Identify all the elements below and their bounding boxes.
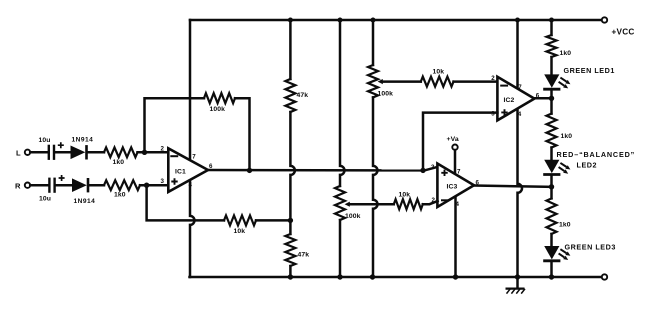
wire diode to R bbox=[88, 151, 104, 154]
svg-text:1k0: 1k0 bbox=[114, 192, 126, 199]
capacitor 10u (right channel) bbox=[48, 178, 50, 193]
potentiometer 100k upper element bbox=[368, 65, 378, 97]
node divider junction bbox=[288, 218, 293, 223]
wire rail to R1 bbox=[550, 20, 553, 35]
wire wiper to 10k bbox=[350, 203, 394, 206]
node rail junction pot2 bottom bbox=[337, 274, 342, 279]
svg-text:LED2: LED2 bbox=[577, 160, 598, 169]
pot2 wiper arrow bbox=[350, 203, 352, 205]
node rail junction LED chain bbox=[549, 18, 554, 23]
svg-text:R: R bbox=[15, 181, 21, 190]
svg-text:10k: 10k bbox=[433, 69, 445, 76]
svg-text:10k: 10k bbox=[234, 228, 246, 235]
wire rail down pot2 (hop over output row) bbox=[340, 20, 345, 186]
wire R to LED3 bbox=[550, 234, 553, 246]
resistor 10k (IC3 input) bbox=[394, 199, 423, 209]
node rail junction LED3 bbox=[549, 274, 554, 279]
node junction pin3/feedback bbox=[144, 183, 149, 188]
wire pot2 to 0V rail bbox=[339, 220, 342, 277]
wire pin2 node up bbox=[145, 98, 205, 152]
wire IC1 output row bbox=[208, 169, 423, 172]
node rail junction 47k bottom bbox=[288, 274, 293, 279]
pin plus IC3 bbox=[441, 170, 447, 176]
svg-text:IC1: IC1 bbox=[175, 168, 186, 175]
svg-text:+Va: +Va bbox=[447, 136, 459, 143]
wire cap to diode bbox=[56, 184, 72, 187]
svg-text:7: 7 bbox=[518, 84, 522, 91]
svg-text:100k: 100k bbox=[345, 213, 361, 220]
resistor 100k feedback bbox=[204, 93, 235, 103]
wire IC2 output bbox=[534, 97, 551, 100]
wire 10k to IC2 pin2 bbox=[454, 80, 498, 83]
wire wiper to 10k bbox=[384, 80, 421, 83]
svg-text:1k0: 1k0 bbox=[113, 159, 125, 166]
node rail junction ground/IC2 pin4 bbox=[515, 274, 520, 279]
resistor 47k upper bbox=[285, 79, 295, 112]
svg-text:2: 2 bbox=[491, 75, 495, 82]
wire rail to pot1 bbox=[372, 20, 375, 65]
LED2 red bbox=[544, 160, 559, 173]
pin plus IC1 bbox=[171, 178, 177, 184]
wire L input bbox=[30, 151, 48, 154]
diode D1 1N914 bbox=[71, 146, 86, 160]
wire cap to diode bbox=[56, 151, 71, 154]
svg-text:IC3: IC3 bbox=[447, 184, 458, 191]
node rail junction pot2 bbox=[338, 18, 343, 23]
wire link to IC3 pin3 bbox=[423, 167, 438, 171]
wire R to LED1 bbox=[550, 57, 553, 74]
wire 10k to divider node bbox=[256, 219, 290, 222]
wire R input bbox=[30, 184, 48, 187]
wire diode to R bbox=[90, 184, 105, 187]
node output junction bbox=[247, 168, 252, 173]
wire IC2 pin3 row bbox=[423, 113, 497, 171]
capacitor 10u (left channel) bbox=[48, 145, 50, 160]
pin minus IC3 bbox=[442, 199, 448, 201]
node rail junction 47k bbox=[288, 18, 293, 23]
terminal +Va bbox=[452, 145, 457, 150]
node rail junction pot1 bbox=[371, 18, 376, 23]
diode D2 1N914 bbox=[72, 178, 87, 192]
wire LED3 to 0V rail bbox=[550, 262, 553, 277]
wire +Va to IC3 pin7 bbox=[454, 150, 457, 172]
svg-text:100k: 100k bbox=[210, 106, 226, 113]
wire R to LED2 bbox=[550, 148, 553, 160]
LED3 green bbox=[544, 246, 559, 259]
op-amp IC2 bbox=[497, 77, 534, 121]
wire IC1 pin4 to 0V rail (hop over 10k row) bbox=[190, 181, 195, 278]
node LED chain junction IC2 out bbox=[549, 96, 554, 101]
svg-text:1k0: 1k0 bbox=[561, 133, 573, 140]
node LED chain junction IC3 out bbox=[549, 184, 554, 189]
pot1 wiper arrow bbox=[383, 81, 385, 83]
svg-text:IC2: IC2 bbox=[504, 97, 515, 104]
svg-text:10u: 10u bbox=[39, 137, 51, 144]
wire 100k to output node bbox=[235, 98, 250, 170]
terminal +VCC bbox=[602, 17, 607, 22]
svg-text:2: 2 bbox=[161, 145, 165, 152]
svg-text:7: 7 bbox=[457, 169, 461, 176]
op-amp IC1 bbox=[168, 148, 208, 192]
resistor 47k lower bbox=[289, 220, 292, 234]
svg-text:1N914: 1N914 bbox=[74, 198, 96, 205]
wire +VCC top rail bbox=[190, 19, 603, 22]
svg-text:L: L bbox=[16, 148, 21, 157]
resistor 1k0 (left input) bbox=[104, 147, 138, 157]
ground (chassis) bbox=[516, 277, 519, 288]
wire IC1 pin7 to +VCC rail bbox=[189, 20, 192, 160]
svg-text:1N914: 1N914 bbox=[72, 136, 94, 143]
wire 47k to node (hop over output row) bbox=[290, 112, 295, 220]
wire pin3 node down bbox=[147, 185, 224, 220]
wire IC3 pin4 to 0V rail bbox=[454, 197, 457, 277]
svg-text:10k: 10k bbox=[399, 191, 411, 198]
node rail junction IC3 pin4 bbox=[453, 274, 458, 279]
svg-text:3: 3 bbox=[431, 164, 435, 171]
svg-text:+VCC: +VCC bbox=[612, 27, 635, 36]
node IC2pin3/IC1out junction bbox=[420, 168, 425, 173]
terminal bottom right bbox=[602, 274, 607, 279]
wire LED1 to junction bbox=[550, 90, 553, 113]
svg-text:RED–“BALANCED”: RED–“BALANCED” bbox=[557, 150, 636, 159]
pin minus IC2 bbox=[501, 85, 507, 87]
resistor 1k0 (second) bbox=[547, 114, 557, 148]
wire IC2 pin4 to 0V rail (hop over IC3 output) bbox=[518, 110, 523, 278]
svg-text:1k0: 1k0 bbox=[559, 222, 571, 229]
svg-text:1k0: 1k0 bbox=[560, 50, 572, 57]
wire LED2 to junction bbox=[550, 176, 553, 199]
svg-text:GREEN LED3: GREEN LED3 bbox=[565, 242, 616, 251]
wire 0V bottom rail bbox=[190, 276, 604, 279]
wire IC3 output bbox=[474, 186, 552, 187]
node rail junction IC2 pin7 bbox=[515, 18, 520, 23]
node junction pin2/feedback bbox=[142, 150, 147, 155]
svg-text:47k: 47k bbox=[297, 92, 309, 99]
resistor 1k0 (right input) bbox=[104, 180, 140, 190]
wire rail to 47k top bbox=[289, 20, 292, 79]
wire R to IC1 pin2 bbox=[138, 151, 169, 154]
LED1 green bbox=[544, 74, 559, 87]
svg-text:6: 6 bbox=[209, 163, 213, 170]
wire IC2 pin7 to +VCC rail bbox=[516, 20, 519, 88]
pin minus IC1 bbox=[171, 155, 177, 157]
op-amp IC3 bbox=[437, 164, 474, 208]
svg-text:100k: 100k bbox=[378, 91, 394, 98]
potentiometer 100k lower element bbox=[335, 186, 345, 220]
wire 10k to IC3 pin2 bbox=[423, 201, 438, 204]
resistor 10k lower bbox=[224, 215, 256, 225]
svg-text:7: 7 bbox=[192, 153, 196, 160]
wire pot1 down (hops over output row and wiper row) bbox=[373, 97, 378, 277]
svg-text:47k: 47k bbox=[298, 252, 310, 259]
svg-text:GREEN LED1: GREEN LED1 bbox=[564, 66, 615, 75]
resistor 1k0 (third) bbox=[547, 198, 557, 234]
wire R to IC1 pin3 bbox=[140, 184, 168, 187]
svg-text:10u: 10u bbox=[39, 196, 51, 203]
pin plus IC2 bbox=[501, 109, 507, 115]
svg-text:3: 3 bbox=[161, 178, 165, 185]
node rail junction pot1 bottom bbox=[370, 274, 375, 279]
resistor 10k (IC2 input) bbox=[421, 77, 454, 87]
resistor 1k0 (top) bbox=[547, 35, 557, 57]
